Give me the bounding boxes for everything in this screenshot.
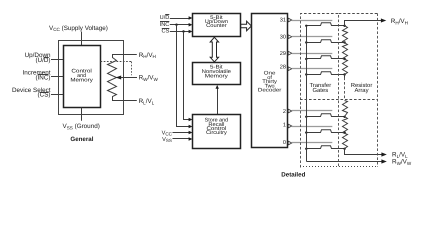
label Up/Down (U/D) input: [25, 52, 51, 64]
junction node bus tap 30: [305, 41, 307, 43]
junction node resistor tap 0: [343, 148, 345, 150]
dashed box Resistor Array bottom border: [300, 166, 378, 168]
svg-text:RW/VW: RW/VW: [139, 75, 159, 82]
transistor Q31 pass gate: [307, 23, 345, 26]
svg-text:General: General: [70, 136, 93, 143]
wire gate line 29: [292, 53, 333, 55]
wire VCC to store box: [173, 132, 191, 134]
label INC input: [160, 22, 170, 28]
buffer gate output 30: [288, 35, 292, 39]
junction node bus tap 29: [305, 58, 307, 60]
decoder output pin 31: [280, 18, 286, 24]
arrow INC into store box: [189, 125, 193, 128]
wire CS drop to store/recall: [184, 32, 191, 120]
label RW/VW: [139, 75, 159, 82]
wire CS to counter: [170, 31, 190, 33]
junction node CS: [182, 30, 184, 32]
svg-text:Memory: Memory: [70, 78, 93, 84]
buffer gate output 1: [288, 124, 292, 128]
dashed resistor array continuation: [344, 78, 346, 100]
label Increment (INC) input: [23, 70, 51, 82]
arrow U/D into counter: [189, 16, 193, 19]
svg-text:Array: Array: [354, 87, 368, 94]
wire INC input: [51, 76, 63, 78]
buffer gate output 29: [288, 51, 292, 55]
decoder output pin 28: [280, 65, 286, 71]
wire VSS to store box: [173, 138, 191, 140]
transistor Q0 pass gate: [307, 146, 345, 149]
svg-text:Counter: Counter: [206, 23, 227, 29]
block 5-Bit Up/Down Counter: [193, 14, 241, 37]
label RH/VH: [139, 52, 156, 59]
svg-text:U/D: U/D: [160, 14, 170, 21]
wire wiper bus: [306, 26, 308, 162]
label VSS (Ground): [63, 123, 100, 130]
block 5-Bit Nonvolatile Memory: [193, 63, 241, 85]
block Store and Recall Control Circuitry: [193, 115, 241, 149]
svg-text:30: 30: [280, 35, 286, 41]
decoder output pin 2: [283, 109, 286, 115]
wire RW/VW output: [307, 161, 383, 163]
buffer gate output 2: [288, 109, 292, 113]
wire gate line 30: [292, 36, 333, 38]
resistor array top section: [343, 26, 348, 75]
label VCC (Supply Voltage): [49, 25, 108, 32]
svg-text:RL/VL: RL/VL: [139, 98, 155, 105]
wire VCC supply to Control box: [81, 32, 83, 46]
label RW/VW right: [392, 159, 412, 166]
svg-text:VSS: VSS: [162, 137, 172, 143]
svg-text:CS: CS: [162, 29, 170, 35]
wire store/recall to memory: [217, 88, 219, 115]
wire CS input: [51, 94, 63, 96]
arrow RW output: [381, 159, 386, 163]
block One of Thirty Two Decoder: [252, 14, 288, 148]
wire RH/VH output: [345, 21, 382, 26]
transistor Q2 pass gate: [307, 114, 345, 117]
svg-text:INC: INC: [160, 22, 170, 28]
svg-text:Detailed: Detailed: [281, 172, 305, 179]
resistor array bottom section: [343, 117, 348, 149]
transistor Q28 pass gate: [307, 72, 345, 75]
label VSS input: [162, 137, 172, 143]
svg-text:(INC): (INC): [35, 75, 50, 82]
wiper arrow: [116, 76, 122, 80]
junction node resistor tap 2: [343, 116, 345, 118]
junction node bus tap 0: [305, 148, 307, 150]
junction node bus tap 2: [305, 116, 307, 118]
arrow RL output: [381, 152, 386, 156]
junction node INC: [175, 24, 177, 26]
block Control and Memory U1: [64, 46, 101, 108]
svg-text:Gates: Gates: [312, 87, 328, 94]
label RL/VL right: [392, 152, 408, 159]
junction node resistor tap 31: [343, 25, 345, 27]
svg-text:RW/VW: RW/VW: [392, 159, 412, 166]
svg-text:VSS (Ground): VSS (Ground): [63, 123, 100, 130]
label U/D input: [160, 14, 170, 21]
dashed box Resistor Array right border: [377, 13, 379, 167]
junction node bus tap 31: [305, 25, 307, 27]
label CS input: [162, 29, 170, 35]
decoder output pin 30: [280, 35, 286, 41]
arrow CS into store box: [189, 118, 193, 121]
resistor array middle section: [343, 101, 348, 117]
wire U/D to counter: [170, 18, 190, 20]
wire RL terminal: [112, 100, 137, 102]
wire INC drop to store/recall: [177, 25, 191, 127]
label RH/VH right: [391, 18, 408, 25]
caption General: [70, 136, 93, 143]
svg-text:Circuitry: Circuitry: [206, 130, 227, 136]
svg-text:2: 2: [283, 109, 286, 115]
svg-text:1: 1: [283, 122, 286, 128]
svg-text:VCC (Supply Voltage): VCC (Supply Voltage): [49, 25, 108, 32]
svg-text:28: 28: [280, 65, 286, 71]
label Resistor Array: [351, 82, 373, 94]
transistor Q30 pass gate: [307, 40, 345, 43]
wire gate line 2: [292, 110, 333, 112]
junction node resistor tap 28: [343, 73, 345, 75]
block double arrow counter/memory: [210, 37, 218, 62]
arrow INC into counter: [189, 23, 193, 26]
transistor Q29 pass gate: [307, 56, 345, 59]
arrow CS into counter: [189, 30, 193, 33]
svg-text:Decoder: Decoder: [258, 88, 282, 94]
caption Detailed: [281, 172, 305, 179]
svg-text:0: 0: [283, 140, 286, 146]
wire gate line 0: [292, 142, 333, 144]
svg-text:RH/VH: RH/VH: [139, 52, 156, 59]
dashed continuation divider: [300, 99, 378, 101]
label Device Select (CS) input: [12, 87, 51, 99]
buffer gate output 31: [288, 18, 292, 22]
potentiometer R1 zigzag: [108, 55, 117, 101]
label Transfer Gates: [309, 82, 331, 94]
junction node resistor tap 29: [343, 58, 345, 60]
wire gate line 28: [292, 68, 333, 70]
junction node resistor tap 1: [343, 131, 345, 133]
svg-text:31: 31: [280, 18, 286, 24]
wire resistor continuation stub: [344, 75, 346, 78]
wire gate line 31: [292, 20, 333, 22]
block arrow counter to decoder: [241, 21, 252, 31]
junction node bus tap 28: [305, 73, 307, 75]
junction node resistor tap 30: [343, 41, 345, 43]
arrow up into memory: [216, 85, 219, 89]
wire U/D input: [51, 59, 63, 61]
buffer gate output 28: [288, 67, 292, 71]
svg-text:RL/VL: RL/VL: [392, 152, 408, 159]
svg-text:29: 29: [280, 51, 286, 57]
arrow RH output: [381, 18, 386, 22]
junction node bus tap 1: [305, 131, 307, 133]
wire RW terminal: [121, 77, 137, 79]
wire INC to counter: [170, 24, 190, 26]
transistor Q1 pass gate: [307, 130, 345, 133]
dashed box Transfer Gates: [301, 14, 339, 168]
label RL/VL: [139, 98, 155, 105]
wire VSS ground: [81, 108, 83, 121]
decoder output pin 1: [283, 122, 286, 128]
label VCC input: [162, 131, 173, 137]
svg-text:RH/VH: RH/VH: [391, 18, 408, 25]
arrow VSS into store box: [189, 137, 193, 140]
buffer gate output 0: [288, 141, 292, 145]
svg-text:Memory: Memory: [205, 73, 228, 79]
arrow VCC into store box: [189, 131, 193, 134]
wire RL/VL output: [345, 149, 383, 155]
wire gate line 1: [292, 126, 333, 128]
outer device boundary box: [59, 41, 124, 115]
svg-text:VCC: VCC: [162, 131, 173, 137]
wire RH terminal: [112, 54, 137, 56]
dashed box Resistor Array top border: [339, 13, 378, 15]
decoder output pin 29: [280, 51, 286, 57]
decoder output pin 0: [283, 140, 286, 146]
dashed wiper control line: [101, 62, 132, 76]
